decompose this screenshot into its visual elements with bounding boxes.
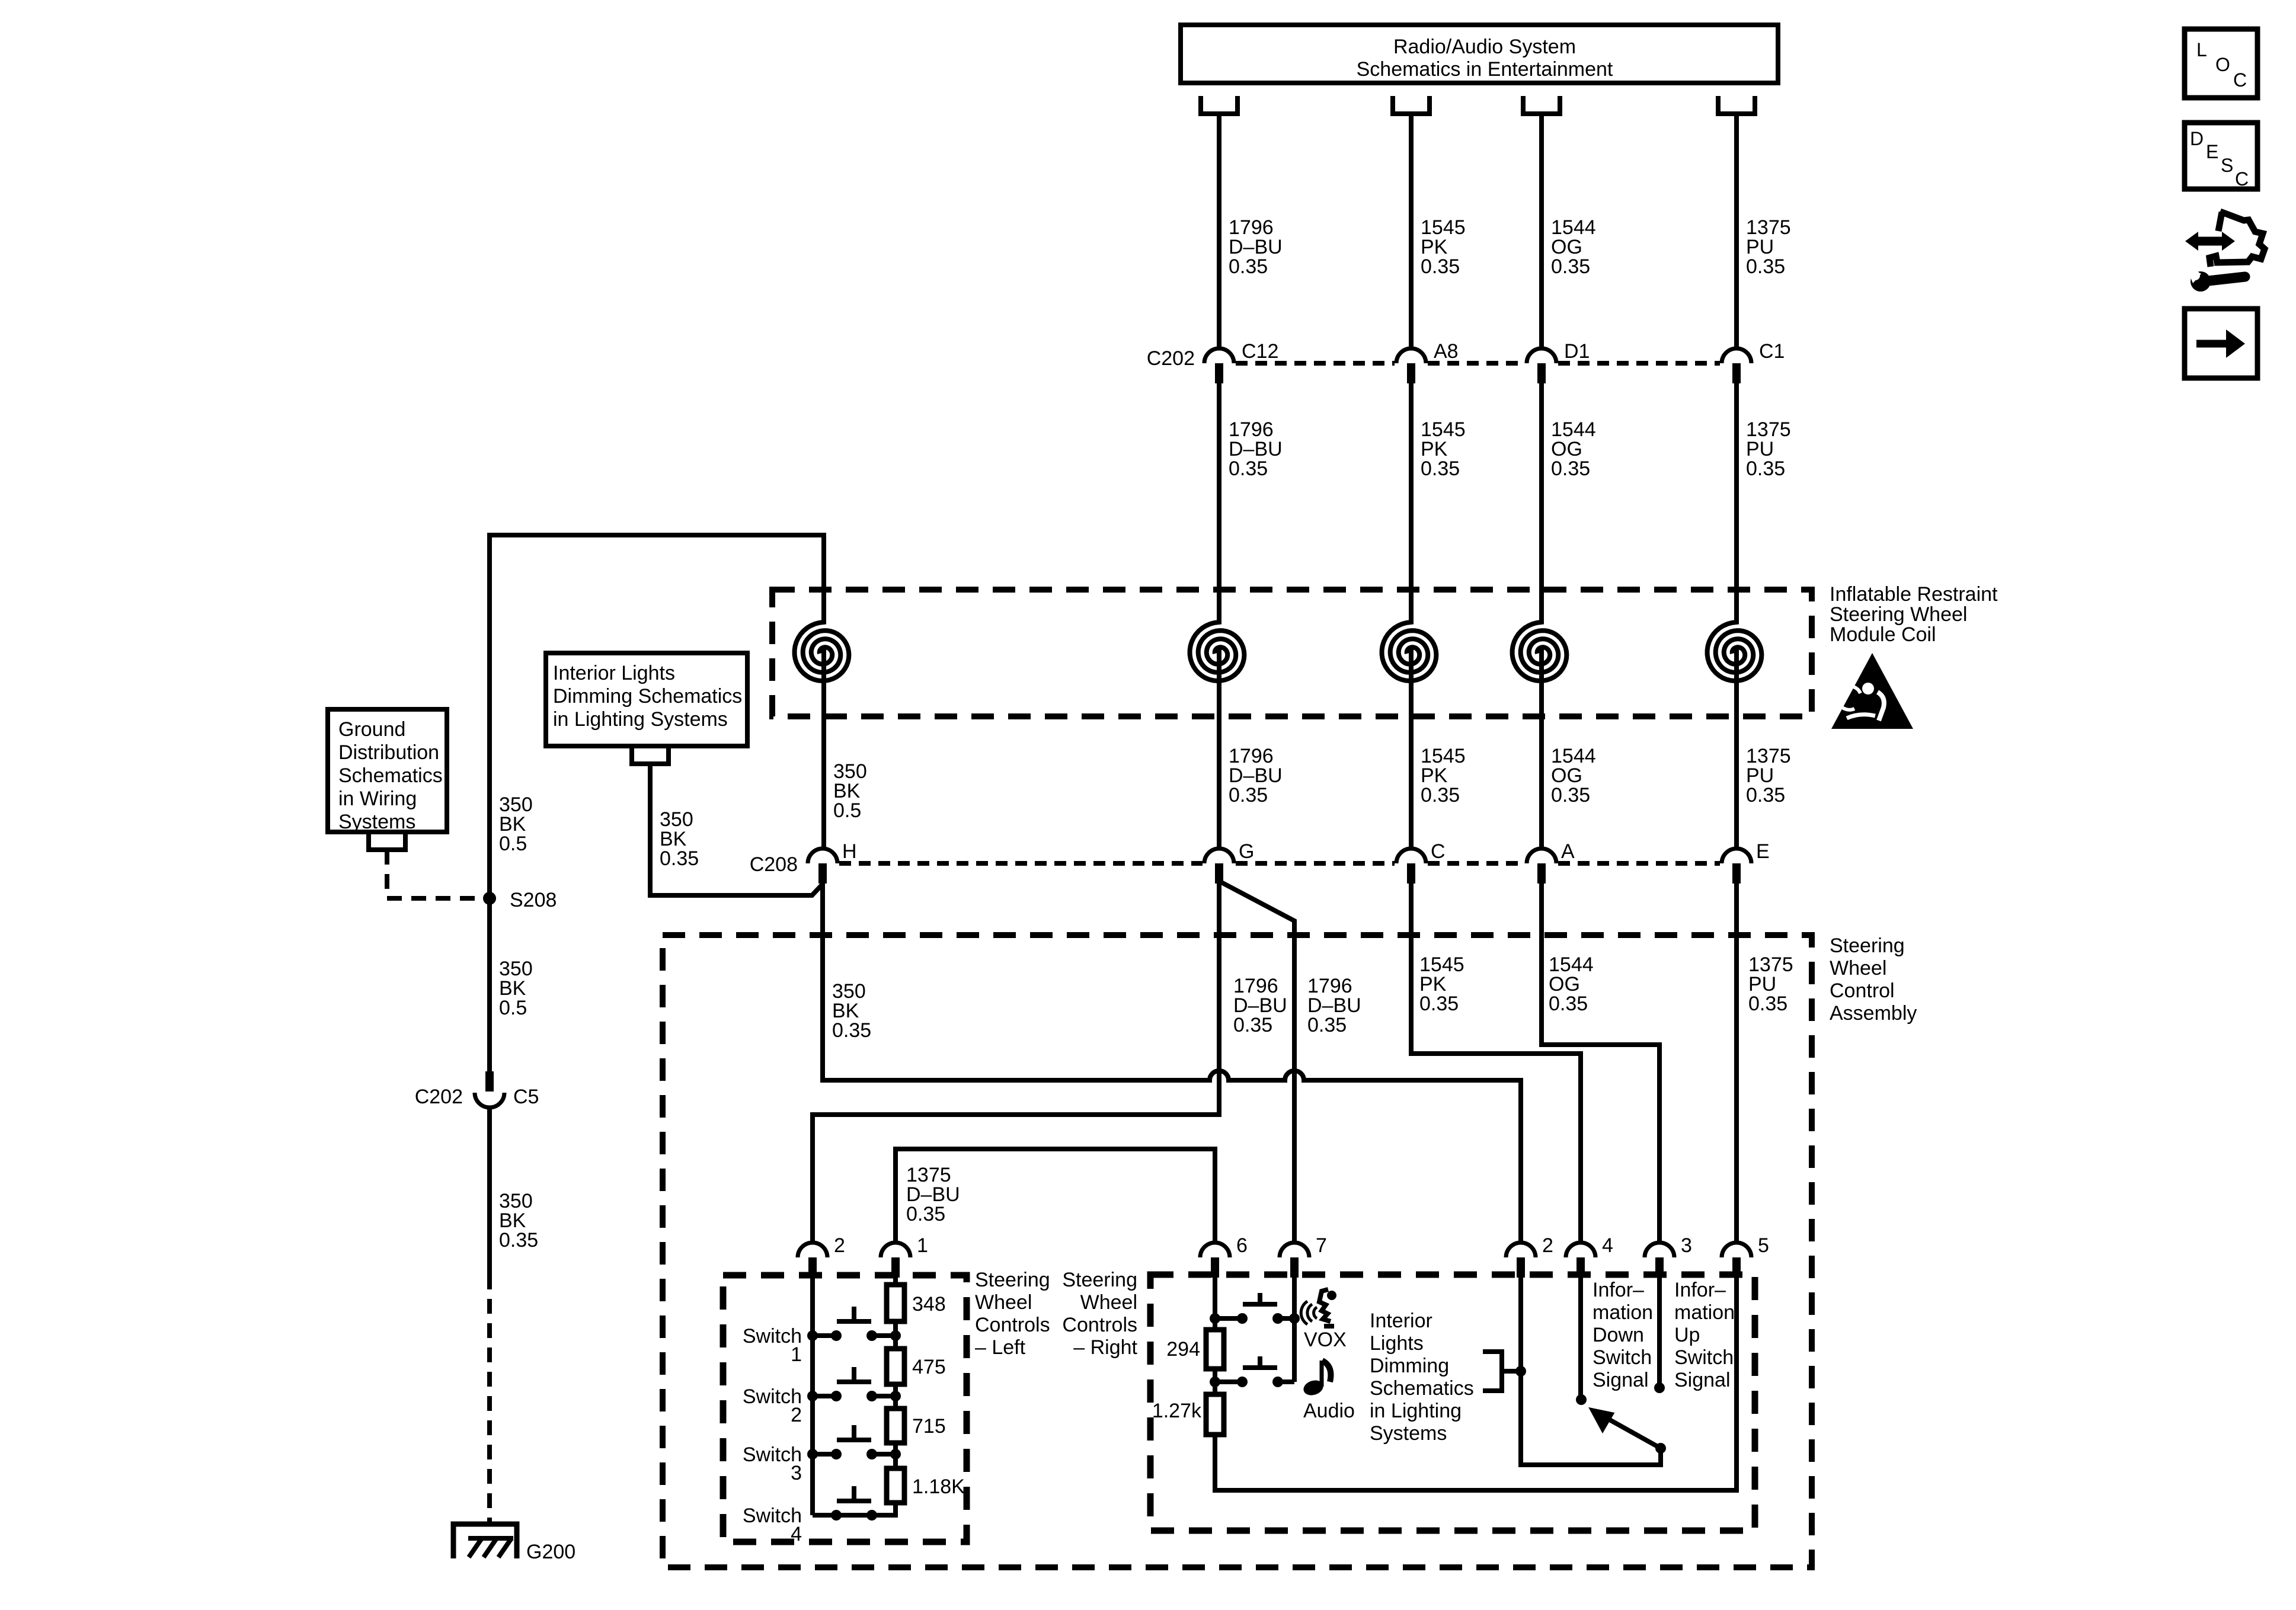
connector tab 4 under radio box <box>1718 96 1755 114</box>
svg-text:0.35: 0.35 <box>1229 784 1268 806</box>
connector C202 pin A8 <box>1396 340 1459 383</box>
label Switch 2 <box>743 1385 802 1426</box>
wire 350 BK 0.35 from interior lights box to C208 pin H <box>650 764 823 895</box>
svg-text:G200: G200 <box>526 1541 575 1563</box>
steering wheel controls connector pin 4 <box>1566 1234 1613 1278</box>
svg-text:Dimming Schematics: Dimming Schematics <box>553 685 742 708</box>
svg-text:Schematics in Entertainment: Schematics in Entertainment <box>1357 58 1613 81</box>
svg-text:0.35: 0.35 <box>1307 1014 1347 1036</box>
dashed wire from ground distribution box to splice S208 <box>387 850 484 898</box>
svg-text:294: 294 <box>1166 1338 1200 1361</box>
airbag warning triangle symbol <box>1831 653 1913 729</box>
svg-text:1: 1 <box>917 1234 928 1257</box>
wire 1545 PK from radio box to connector C202 <box>1409 114 1414 348</box>
svg-text:C208: C208 <box>750 853 798 876</box>
ground G200 symbol <box>453 1524 517 1558</box>
svg-text:C: C <box>2233 69 2247 91</box>
wire 350 BK 0.5 from S208 to C202 pin C5 <box>487 898 492 1071</box>
label wire 1796 D-BU 0.35 (branch, right) <box>1307 975 1361 1036</box>
svg-text:0.35: 0.35 <box>1229 457 1268 480</box>
label S208 <box>510 889 557 911</box>
svg-text:C202: C202 <box>1147 347 1195 370</box>
svg-text:L: L <box>2196 39 2207 60</box>
label wire 1375 PU 0.35 above C208 <box>1746 745 1791 806</box>
svg-text:C: C <box>2235 168 2249 190</box>
svg-text:Switch: Switch <box>1593 1346 1652 1369</box>
icon Audio (musical note) <box>1302 1361 1331 1398</box>
box: Interior Lights Dimming Schematics in Lighting Systems <box>546 653 747 746</box>
label wire 1796 D–BU 0.35 above C208 <box>1229 745 1283 806</box>
svg-text:0.35: 0.35 <box>1746 457 1785 480</box>
svg-text:Systems: Systems <box>1370 1422 1447 1445</box>
wire 350 BK 0.35 from C208 H to switch pin 2 (right controls) with hops <box>823 884 1521 1243</box>
svg-text:G: G <box>1239 840 1254 863</box>
svg-text:H: H <box>842 840 857 863</box>
label 1.27k <box>1152 1400 1202 1422</box>
coil L2 (1796 D-BU): inflatable restraint coil winding <box>1190 619 1245 849</box>
svg-text:3: 3 <box>1681 1234 1692 1257</box>
svg-text:7: 7 <box>1316 1234 1327 1257</box>
switch VOX <box>1210 1293 1300 1324</box>
label G200 <box>526 1541 575 1563</box>
svg-text:348: 348 <box>912 1293 946 1315</box>
svg-text:Module Coil: Module Coil <box>1830 623 1936 646</box>
svg-text:E: E <box>1756 840 1770 863</box>
svg-text:0.35: 0.35 <box>1748 993 1787 1015</box>
wire pin 2 (right) to dimmer wiper <box>1521 1278 1661 1465</box>
svg-text:Systems: Systems <box>338 811 415 833</box>
connector C208 pin H <box>808 840 857 884</box>
svg-text:mation: mation <box>1674 1301 1735 1324</box>
svg-text:Schematics: Schematics <box>1370 1377 1474 1400</box>
bus wire from pin 2 down the left switch column <box>810 1278 815 1515</box>
icon VOX (speaking head with sound waves) <box>1301 1289 1336 1326</box>
dashed wire to ground G200 <box>487 1275 492 1522</box>
label wire 1545 PK 0.35 (below C208 C) <box>1419 953 1464 1015</box>
label wire 1796 D–BU 0.35 <box>1229 418 1283 480</box>
resistor chain wire from pin 1 <box>813 1278 896 1515</box>
svg-text:Interior: Interior <box>1370 1310 1432 1332</box>
svg-text:0.35: 0.35 <box>906 1203 945 1225</box>
switch Audio <box>1210 1356 1294 1387</box>
svg-text:VOX: VOX <box>1304 1329 1347 1351</box>
svg-text:1.18K: 1.18K <box>912 1475 965 1498</box>
label 475 <box>912 1356 946 1378</box>
label wire 1375 PU 0.35 <box>1746 418 1791 480</box>
resistor 475 <box>887 1349 904 1384</box>
svg-text:Signal: Signal <box>1674 1369 1731 1391</box>
svg-text:Lights: Lights <box>1370 1332 1424 1355</box>
connector tab 2 under radio box <box>1393 96 1430 114</box>
svg-text:2: 2 <box>791 1404 802 1426</box>
dashed box: Steering Wheel Controls - Right <box>1150 1275 1755 1531</box>
wire pin 4 column to wiper contact <box>1578 1278 1583 1400</box>
wire 350 BK 0.35 from C5 down <box>487 1108 492 1275</box>
icon: component location arrows with wrench <box>2185 212 2265 292</box>
wire 1545 PK from C208 C to pin 4 <box>1411 884 1581 1243</box>
wire 1375 PU from radio box to connector C202 <box>1734 114 1739 348</box>
connector C208 label <box>750 853 798 876</box>
svg-text:mation: mation <box>1593 1301 1653 1324</box>
svg-text:1: 1 <box>791 1343 802 1366</box>
steering wheel controls connector pin 6 <box>1200 1234 1248 1278</box>
svg-text:0.35: 0.35 <box>832 1019 871 1042</box>
steering wheel controls connector pin 5 <box>1722 1234 1769 1278</box>
svg-text:0.35: 0.35 <box>1421 457 1460 480</box>
coil L3 (1545 PK): inflatable restraint coil winding <box>1382 619 1437 849</box>
label Switch 3 <box>743 1443 802 1484</box>
wire 1375 PU from C208 E to pin 5 <box>1734 884 1739 1243</box>
svg-text:C: C <box>1431 840 1446 863</box>
svg-text:E: E <box>2206 141 2218 162</box>
label Switch 4 <box>743 1505 802 1545</box>
open contact dot (pin 3) <box>1654 1382 1665 1393</box>
switch 3 (left controls) <box>807 1425 901 1459</box>
svg-text:S208: S208 <box>510 889 557 911</box>
svg-text:A8: A8 <box>1434 340 1459 363</box>
label VOX <box>1304 1329 1347 1351</box>
wire 1544 OG from C202 to steering wheel module coil <box>1539 383 1544 620</box>
svg-text:Interior Lights: Interior Lights <box>553 662 675 684</box>
coil L1 (ground path): inflatable restraint coil winding <box>795 619 849 849</box>
label wire 1544 OG 0.35 <box>1551 418 1596 480</box>
resistor 348 <box>887 1285 904 1321</box>
connector C208 pin E <box>1722 840 1770 884</box>
wire pin 3 column (open contact) <box>1657 1278 1662 1388</box>
resistor 294 <box>1206 1330 1224 1369</box>
connector tab 1 under radio box <box>1201 96 1237 114</box>
icon box forward arrow <box>2185 309 2257 378</box>
label wire 1375 PU 0.35 (below C208 E) <box>1748 953 1793 1015</box>
svg-text:O: O <box>2215 54 2230 75</box>
svg-text:Wheel: Wheel <box>1830 957 1886 980</box>
connector C202 dashed body line <box>1236 361 1720 366</box>
label wire 1375 PU 0.35 <box>1746 216 1791 278</box>
connector tab 3 under radio box <box>1523 96 1560 114</box>
svg-text:C12: C12 <box>1242 340 1278 363</box>
svg-text:Wheel: Wheel <box>1080 1291 1137 1314</box>
svg-text:0.35: 0.35 <box>1551 255 1590 278</box>
wire pin 7 column <box>1292 1278 1297 1382</box>
label 715 <box>912 1415 946 1438</box>
svg-text:Infor–: Infor– <box>1674 1279 1726 1301</box>
switch 2 (left controls) <box>807 1367 901 1401</box>
svg-text:Steering: Steering <box>1062 1269 1137 1291</box>
wire 1544 OG from C208 A to pin 3 <box>1542 884 1659 1243</box>
svg-text:Controls: Controls <box>975 1314 1050 1336</box>
wire 1545 PK from C202 to steering wheel module coil <box>1409 383 1414 620</box>
steering wheel controls connector pin 2 <box>1506 1234 1553 1278</box>
svg-text:Down: Down <box>1593 1324 1644 1346</box>
connector C202 pin C12 <box>1204 340 1278 383</box>
dashed box: Steering Wheel Control Assembly <box>663 935 1812 1567</box>
label C202 (left of C5) <box>415 1086 463 1108</box>
wire 1375 D-BU connecting pin 1 to pin 6 <box>896 1149 1215 1243</box>
svg-text:Controls: Controls <box>1062 1314 1137 1336</box>
label wire 1544 OG 0.35 <box>1551 216 1596 278</box>
label wire 1375 D-BU 0.35 <box>906 1164 960 1225</box>
svg-text:D: D <box>2190 128 2204 149</box>
label 348 <box>912 1293 946 1315</box>
label 294 <box>1166 1338 1200 1361</box>
svg-text:3: 3 <box>791 1462 802 1484</box>
svg-text:0.35: 0.35 <box>1746 255 1785 278</box>
svg-text:0.35: 0.35 <box>1746 784 1785 806</box>
svg-text:Audio: Audio <box>1303 1400 1355 1422</box>
connector tab under ground distribution box <box>369 832 405 850</box>
label wire 1796 D–BU 0.35 <box>1229 216 1283 278</box>
svg-text:Inflatable Restraint: Inflatable Restraint <box>1830 583 1998 606</box>
svg-text:0.5: 0.5 <box>833 799 861 822</box>
svg-text:A: A <box>1561 840 1575 863</box>
label wire 1545 PK 0.35 <box>1421 418 1466 480</box>
label Switch 1 <box>743 1325 802 1366</box>
label: Inflatable Restraint Steering Wheel Module Coil <box>1830 583 1998 646</box>
svg-text:Assembly: Assembly <box>1830 1002 1917 1025</box>
svg-text:Switch: Switch <box>1674 1346 1734 1369</box>
svg-text:2: 2 <box>834 1234 845 1257</box>
label wire 1796 D-BU 0.35 (below C208 G, left) <box>1233 975 1287 1036</box>
svg-text:Signal: Signal <box>1593 1369 1649 1391</box>
svg-text:4: 4 <box>1602 1234 1613 1257</box>
wire 1796 D–BU from radio box to connector C202 <box>1217 114 1221 348</box>
svg-text:C5: C5 <box>513 1086 539 1108</box>
connector C208 pin C <box>1396 840 1446 884</box>
label Audio <box>1303 1400 1355 1422</box>
svg-text:715: 715 <box>912 1415 946 1438</box>
box: Ground Distribution Schematics in Wiring Systems <box>328 709 447 833</box>
label wire 1544 OG 0.35 (below C208 A) <box>1549 953 1594 1015</box>
svg-text:0.35: 0.35 <box>1549 993 1588 1015</box>
svg-text:0.35: 0.35 <box>499 1229 538 1251</box>
svg-text:C202: C202 <box>415 1086 463 1108</box>
svg-text:in Lighting: in Lighting <box>1370 1400 1462 1422</box>
wire 1796 D-BU from C208 G straight down to pin 2 (left controls) <box>813 884 1219 1243</box>
svg-text:Distribution: Distribution <box>338 741 439 764</box>
svg-text:Up: Up <box>1674 1324 1700 1346</box>
svg-text:475: 475 <box>912 1356 946 1378</box>
resistor 1.27k <box>1206 1394 1224 1435</box>
svg-text:– Left: – Left <box>975 1336 1026 1359</box>
switch 4 (left controls) <box>813 1486 896 1521</box>
coil L5 (1375 PU): inflatable restraint coil winding <box>1707 619 1762 849</box>
label wire 350 BK 0.35 (above G200) <box>499 1190 538 1251</box>
connector C202 pin C1 <box>1722 340 1785 383</box>
switch 1 (left controls) <box>807 1307 901 1341</box>
label: Information Up Switch Signal <box>1674 1279 1735 1391</box>
connector C208 dashed body line <box>839 861 1720 866</box>
connector C208 pin G <box>1204 840 1254 884</box>
svg-text:5: 5 <box>1758 1234 1769 1257</box>
label wire 350 BK 0.5 (above S208) <box>499 793 533 855</box>
resistor 715 <box>887 1409 904 1443</box>
svg-text:0.5: 0.5 <box>499 833 527 855</box>
coil L4 (1544 OG): inflatable restraint coil winding <box>1512 619 1567 849</box>
label wire 1545 PK 0.35 above C208 <box>1421 745 1466 806</box>
label pin C5 <box>513 1086 539 1108</box>
dimmer wiper arrow <box>1590 1409 1666 1454</box>
svg-text:4: 4 <box>791 1523 802 1545</box>
label 1.18K <box>912 1475 965 1498</box>
svg-text:Schematics: Schematics <box>338 764 443 787</box>
label wire 1545 PK 0.35 <box>1421 216 1466 278</box>
wiper contact dot (pin 4) <box>1576 1394 1587 1405</box>
label: Steering Wheel Control Assembly <box>1830 934 1917 1025</box>
svg-text:C1: C1 <box>1759 340 1785 363</box>
label: Interior Lights Dimming Schematics in Lighting Systems <box>1370 1310 1474 1445</box>
svg-text:2: 2 <box>1542 1234 1553 1257</box>
label wire 1544 OG 0.35 above C208 <box>1551 745 1596 806</box>
wire 350 BK 0.5 from S208 up and over to coil L1 <box>490 535 824 898</box>
svg-text:0.35: 0.35 <box>1421 255 1460 278</box>
svg-text:0.35: 0.35 <box>1233 1014 1272 1036</box>
label: Steering Wheel Controls - Left <box>975 1269 1050 1359</box>
label: Steering Wheel Controls - Right <box>1062 1269 1137 1359</box>
svg-text:– Right: – Right <box>1073 1336 1137 1359</box>
label wire 350 BK 0.35 <box>660 808 699 870</box>
svg-text:Steering: Steering <box>975 1269 1050 1291</box>
svg-text:6: 6 <box>1236 1234 1248 1257</box>
connector C202 label <box>1147 347 1195 370</box>
resistor 1.18K <box>887 1468 904 1503</box>
box: Radio/Audio System Schematics in Entertainment <box>1181 25 1778 83</box>
svg-text:0.35: 0.35 <box>1551 784 1590 806</box>
junction dot on pin 2 wire at bracket <box>1515 1366 1526 1377</box>
icon box LOC <box>2185 29 2257 98</box>
svg-text:Control: Control <box>1830 980 1895 1002</box>
wire pin 6 down through resistors to pin 5 <box>1215 1278 1737 1490</box>
connector C202 pin D1 <box>1527 340 1590 383</box>
svg-text:0.35: 0.35 <box>1419 993 1459 1015</box>
bracket from dimming text to pin 2 wire <box>1483 1352 1517 1391</box>
svg-text:Radio/Audio System: Radio/Audio System <box>1393 36 1576 58</box>
splice S208 <box>483 892 496 905</box>
svg-text:Wheel: Wheel <box>975 1291 1032 1314</box>
label: Information Down Switch Signal <box>1593 1279 1653 1391</box>
wire 1375 PU from C202 to steering wheel module coil <box>1734 383 1739 620</box>
svg-text:0.35: 0.35 <box>1551 457 1590 480</box>
label wire 350 BK 0.5 (below S208) <box>499 958 533 1019</box>
connector tab under interior lights box <box>632 746 669 764</box>
svg-text:Infor–: Infor– <box>1593 1279 1644 1301</box>
svg-text:0.35: 0.35 <box>660 847 699 870</box>
svg-text:D1: D1 <box>1564 340 1590 363</box>
connector C202 pin C5 (inline, pin up) <box>475 1071 504 1108</box>
label wire 350 BK 0.5 <box>833 760 867 822</box>
svg-text:Ground: Ground <box>338 718 405 741</box>
svg-text:Steering: Steering <box>1830 934 1905 957</box>
svg-text:Steering Wheel: Steering Wheel <box>1830 603 1967 626</box>
dashed box: Steering Wheel Controls - Left <box>723 1275 967 1542</box>
steering wheel controls connector pin 7 <box>1280 1234 1327 1278</box>
label wire 350 BK 0.35 (below C208 H) <box>832 980 871 1042</box>
svg-text:in Lighting Systems: in Lighting Systems <box>553 708 728 731</box>
svg-text:0.5: 0.5 <box>499 997 527 1019</box>
steering wheel controls connector pin 2 <box>798 1234 845 1278</box>
steering wheel controls connector pin 3 <box>1645 1234 1692 1278</box>
icon box DESC <box>2185 123 2257 190</box>
svg-text:0.35: 0.35 <box>1229 255 1268 278</box>
svg-text:Dimming: Dimming <box>1370 1355 1449 1377</box>
wire 1796 D–BU from C202 to steering wheel module coil <box>1217 383 1221 620</box>
dashed box: Inflatable Restraint Steering Wheel Module Coil <box>772 590 1812 716</box>
steering wheel controls connector pin 1 <box>881 1234 928 1278</box>
wire 1796 D-BU branch from C208 G diagonal to pin 7 <box>1219 881 1294 1243</box>
wire 1544 OG from radio box to connector C202 <box>1539 114 1544 348</box>
svg-text:0.35: 0.35 <box>1421 784 1460 806</box>
connector C208 pin A <box>1527 840 1575 884</box>
svg-text:S: S <box>2221 155 2233 176</box>
svg-text:1.27k: 1.27k <box>1152 1400 1202 1422</box>
svg-text:in Wiring: in Wiring <box>338 788 417 810</box>
